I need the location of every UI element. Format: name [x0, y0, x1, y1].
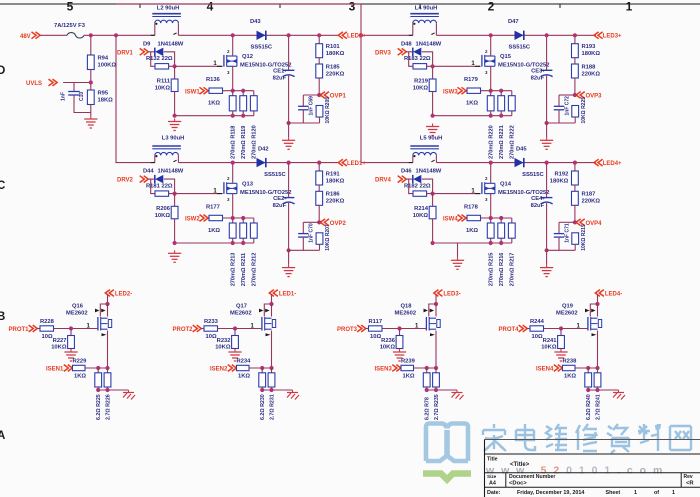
svg-text:ISW1: ISW1: [185, 89, 200, 95]
svg-text:1KΩ: 1KΩ: [74, 373, 86, 379]
ground CE: [282, 137, 295, 149]
svg-text:1N4148W: 1N4148W: [416, 169, 442, 175]
ground sense hatch: [613, 390, 625, 400]
ground CE: [540, 265, 553, 277]
svg-text:270mΩ R213: 270mΩ R213: [231, 253, 237, 287]
net ISEN1: [46, 365, 72, 373]
capacitor C70 1nF: [298, 222, 319, 250]
resistor R214 10KΩ: [413, 194, 436, 219]
ground pulldown: [554, 349, 567, 361]
wire source: [271, 331, 273, 369]
junction sense R: [105, 366, 109, 370]
resistor R215 270mΩ: [487, 218, 494, 286]
svg-text:1: 1: [626, 0, 633, 13]
resistor R226 2.7Ω: [104, 368, 111, 420]
net LED3+: [594, 32, 622, 40]
ground pulldown: [393, 349, 406, 361]
junction drain: [489, 33, 493, 37]
junction bottom L: [586, 388, 590, 392]
svg-text:270mΩ R220: 270mΩ R220: [489, 125, 495, 159]
wire sense bottom: [175, 242, 254, 244]
svg-text:1KΩ: 1KΩ: [208, 228, 220, 234]
watermark chinese characters 家电维修资料网: [483, 424, 691, 453]
svg-text:270mΩ R118: 270mΩ R118: [231, 126, 237, 159]
svg-text:10KΩ R207: 10KΩ R207: [325, 224, 331, 251]
net LED4+: [594, 159, 622, 167]
resistor R230 6.2Ω: [259, 368, 266, 420]
svg-text:Q16: Q16: [72, 304, 84, 310]
resistor R239 1KΩ: [401, 358, 416, 379]
resistor R193 180KΩ: [572, 35, 601, 57]
capacitor CE1 82uF: [273, 35, 295, 123]
capacitor C69 1nF: [298, 95, 319, 123]
wire gate: [218, 324, 262, 330]
svg-text:D48: D48: [401, 41, 412, 47]
resistor R191 180KΩ: [316, 163, 345, 185]
junction bottom R: [595, 388, 599, 392]
wire sense top: [481, 90, 512, 92]
resistor R229 1KΩ: [72, 358, 87, 379]
resistor R132 22Ω: [146, 56, 173, 69]
wire main rail: [178, 34, 338, 36]
net PROT3: [337, 325, 366, 333]
junction bottom R: [269, 388, 273, 392]
resistor R94 100K: [87, 55, 116, 70]
svg-text:2.7Ω R235: 2.7Ω R235: [434, 394, 440, 420]
junction bottom1: [231, 114, 235, 118]
svg-text:<R: <R: [686, 480, 694, 486]
svg-text:L4 90uH: L4 90uH: [415, 5, 438, 11]
svg-text:10Ω: 10Ω: [206, 334, 217, 340]
wire sense top: [223, 217, 254, 219]
svg-text:R227: R227: [53, 338, 67, 344]
wire DRV node: [148, 179, 155, 194]
junction OVP: [573, 220, 577, 224]
svg-text:6.2Ω R230: 6.2Ω R230: [260, 394, 266, 420]
svg-text:R193: R193: [582, 44, 597, 50]
svg-text:R117: R117: [369, 319, 383, 325]
resistor R95 18K: [87, 90, 113, 105]
wire fuse to L2: [84, 34, 155, 36]
wire DRV node: [148, 52, 155, 67]
svg-text:D46: D46: [401, 169, 412, 175]
resistor R192 180KΩ: [550, 163, 579, 185]
title block frame: [485, 440, 700, 497]
border top line: [0, 4, 700, 8]
wire drain: [232, 163, 234, 184]
net OVP1: [319, 78, 346, 100]
resistor R206 10KΩ: [155, 194, 178, 219]
net ISW3: [443, 87, 466, 95]
resistor R185 220KΩ: [316, 58, 345, 78]
resistor R119 270mΩ: [240, 91, 247, 159]
svg-text:1nF: 1nF: [61, 92, 67, 101]
junction source/sense: [231, 216, 235, 220]
svg-text:OVP1: OVP1: [330, 94, 347, 100]
wire drain: [435, 295, 437, 305]
svg-text:1nF C69: 1nF C69: [309, 96, 315, 116]
wire UVLS: [63, 82, 91, 84]
svg-text:LED3+: LED3+: [603, 34, 622, 40]
junction OVP: [317, 93, 321, 97]
svg-text:R214: R214: [414, 206, 429, 212]
svg-text:10KΩ: 10KΩ: [541, 345, 557, 351]
resistor R205 10KΩ: [316, 97, 331, 124]
svg-text:1nF C71: 1nF C71: [564, 223, 570, 243]
svg-text:10KΩ R225: 10KΩ R225: [581, 97, 587, 124]
net ISEN4: [536, 365, 562, 373]
wire pulldown ground: [560, 349, 562, 351]
wire main rail: [436, 34, 596, 36]
diode D42 SS515C: [257, 146, 287, 178]
wire gate: [544, 324, 588, 330]
svg-text:270mΩ R215: 270mΩ R215: [489, 253, 495, 287]
junction gate/R pulldown: [233, 326, 237, 330]
wire L4 right pin: [431, 23, 436, 35]
svg-text:R236: R236: [381, 338, 396, 344]
junction CE bottom: [545, 248, 549, 252]
net LED1-: [269, 290, 296, 298]
junction drain loop: [105, 302, 109, 306]
svg-text:18KΩ: 18KΩ: [98, 98, 114, 104]
junction gate node: [173, 192, 177, 196]
junction divider top: [317, 161, 321, 165]
junction source/sense: [489, 89, 493, 93]
wire C10 top: [73, 83, 75, 92]
svg-text:1: 1: [672, 490, 675, 496]
svg-text:L2 90uH: L2 90uH: [157, 5, 180, 11]
net ISW4: [443, 215, 466, 223]
net PROT4: [499, 325, 528, 333]
wire source: [232, 66, 234, 90]
svg-text:10KΩ: 10KΩ: [155, 86, 171, 92]
wire pulldown ground: [234, 349, 236, 351]
fuse F3 7A/125V: [54, 23, 86, 38]
svg-text:82uF: 82uF: [273, 76, 287, 82]
svg-text:R188: R188: [582, 64, 597, 70]
resistor R207 10KΩ: [316, 224, 331, 251]
wire OVP filter bottom: [289, 122, 320, 124]
svg-text:ME2602: ME2602: [66, 311, 88, 317]
svg-text:R233: R233: [204, 319, 219, 325]
wire sense bottom: [588, 389, 618, 391]
wire sense bottom: [427, 389, 457, 391]
svg-text:R238: R238: [563, 358, 578, 364]
transistor Q15 ME15N10-G/TO252: [471, 49, 549, 75]
svg-text:A: A: [0, 430, 5, 442]
wire R95 to ground: [90, 105, 92, 117]
wire sense bottom: [433, 115, 512, 117]
svg-text:1KΩ: 1KΩ: [466, 101, 478, 107]
net OVP2: [319, 205, 346, 227]
diode D45 SS515C: [515, 146, 545, 178]
resistor R216 270mΩ: [498, 218, 505, 286]
junction bottom/10K: [173, 241, 177, 245]
svg-text:270mΩ R222: 270mΩ R222: [510, 125, 516, 159]
svg-text:2.7Ω R226: 2.7Ω R226: [105, 394, 111, 420]
net OVP3: [575, 78, 602, 100]
junction sense R: [595, 366, 599, 370]
resistor R238 1KΩ: [562, 358, 577, 379]
resistor R215 10KΩ: [572, 224, 587, 251]
junction drain: [231, 33, 235, 37]
resistor R117 10Ω: [366, 319, 382, 340]
net DRV2: [117, 176, 148, 184]
svg-text:1KΩ: 1KΩ: [466, 228, 478, 234]
svg-text:PROT1: PROT1: [9, 327, 30, 333]
svg-text:LED2-: LED2-: [115, 292, 132, 298]
junction sense2: [499, 216, 503, 220]
wire R94-R95: [90, 70, 92, 91]
diode D44 1N4148W: [143, 169, 184, 184]
capacitor CE2 82uF: [273, 163, 295, 251]
svg-text:R192: R192: [554, 171, 568, 177]
svg-text:82uF: 82uF: [273, 203, 287, 209]
wire R206 bottom: [174, 219, 176, 243]
junction OVP: [573, 93, 577, 97]
svg-text:270mΩ R217: 270mΩ R217: [510, 253, 516, 287]
svg-text:R177: R177: [206, 204, 220, 210]
svg-text:270mΩ R212: 270mΩ R212: [252, 253, 258, 287]
ground pulldown: [64, 349, 77, 361]
wire CE ground: [546, 123, 548, 137]
svg-text:Q19: Q19: [562, 304, 574, 310]
wire C10 bottom: [74, 95, 91, 113]
wire diode anode: [164, 52, 175, 67]
junction CE bottom: [287, 248, 291, 252]
wire 48V top rail: [116, 3, 361, 5]
wire 48V to fuse: [41, 34, 68, 36]
wire OVP filter bottom: [547, 122, 576, 124]
inductor L2 90uH: [152, 5, 181, 25]
svg-text:R219: R219: [414, 79, 429, 85]
junction bottom/10K: [431, 241, 435, 245]
svg-text:R111: R111: [157, 79, 171, 85]
wire ground stub: [457, 243, 459, 257]
diode D47 SS515C: [508, 19, 531, 51]
svg-text:R94: R94: [98, 56, 109, 62]
svg-text:SS515C: SS515C: [509, 45, 531, 51]
svg-text:4: 4: [207, 0, 214, 13]
svg-text:10KΩ: 10KΩ: [155, 213, 171, 219]
wire sense: [85, 367, 108, 369]
svg-text:DRV1: DRV1: [117, 50, 134, 56]
junction rail/L4: [359, 33, 363, 37]
transistor Q12 ME15N10-G/TO252: [213, 49, 291, 75]
junction bottom/10K: [173, 114, 177, 118]
svg-text:Title: Title: [487, 456, 498, 462]
net LED3-: [434, 290, 461, 298]
resistor R225 6.2Ω: [95, 368, 102, 420]
svg-text:10KΩ R205: 10KΩ R205: [325, 97, 331, 124]
svg-text:270mΩ R216: 270mΩ R216: [499, 253, 505, 287]
resistor R236 10KΩ: [380, 329, 403, 351]
svg-text:ISW4: ISW4: [443, 217, 458, 223]
svg-text:A4: A4: [489, 480, 496, 486]
junction bottom2: [241, 114, 245, 118]
svg-text:Q14: Q14: [500, 181, 512, 187]
wire right rail: [361, 4, 413, 163]
junction bottom R: [434, 388, 438, 392]
svg-text:OVP2: OVP2: [330, 221, 347, 227]
svg-text:C10: C10: [79, 92, 85, 101]
resistor R177 1KΩ: [206, 204, 223, 234]
wire pulldown ground: [70, 349, 72, 351]
svg-text:ISW2: ISW2: [185, 217, 200, 223]
ground CE: [282, 265, 295, 277]
svg-text:ISW3: ISW3: [443, 89, 458, 95]
svg-text:R181 22Ω: R181 22Ω: [146, 184, 173, 190]
wire sense: [414, 367, 437, 369]
svg-text:ISEN2: ISEN2: [210, 367, 228, 373]
wire drain: [490, 35, 492, 56]
wire gate: [382, 324, 426, 330]
svg-text:10KΩ: 10KΩ: [215, 345, 231, 351]
resistor R187 220KΩ: [572, 185, 601, 205]
net DRV4: [375, 176, 406, 184]
capacitor CE3 82uF: [531, 35, 553, 123]
svg-text:D43: D43: [250, 19, 261, 25]
net ISEN3: [375, 365, 401, 373]
junction sense L: [260, 366, 264, 370]
junction divider top: [573, 161, 577, 165]
junction bottom1: [231, 241, 235, 245]
watermark url www.520101.com: [485, 465, 669, 477]
svg-text:LED3-: LED3-: [443, 292, 460, 298]
wire R214 bottom: [432, 219, 434, 243]
net LED2-: [105, 290, 132, 298]
net LED2+: [338, 32, 366, 40]
resistor R228 10Ω: [37, 319, 54, 340]
junction bottom/10K: [431, 114, 435, 118]
svg-text:R229: R229: [73, 358, 88, 364]
diode D43 SS515C: [250, 19, 273, 51]
junction bottom1: [489, 241, 493, 245]
junction OVP: [317, 220, 321, 224]
wire diode anode: [422, 52, 433, 67]
junction gate node: [431, 64, 435, 68]
svg-text:10KΩ R215: 10KΩ R215: [581, 224, 587, 251]
svg-text:10KΩ: 10KΩ: [413, 86, 429, 92]
resistor R183 22Ω: [404, 56, 431, 69]
svg-text:R228: R228: [40, 319, 55, 325]
wire rail to L4: [361, 34, 413, 36]
watermark book logo: [423, 424, 471, 480]
ground sense hatch: [452, 390, 464, 400]
wire sense bottom: [433, 242, 512, 244]
svg-text:ISEN4: ISEN4: [536, 367, 554, 373]
junction divider top: [317, 33, 321, 37]
svg-text:270mΩ R119: 270mΩ R119: [241, 126, 247, 159]
junction bottom L: [96, 388, 100, 392]
svg-text:Document Number: Document Number: [509, 474, 555, 480]
transistor Q17 ME2602: [230, 304, 276, 337]
resistor R217 270mΩ: [508, 218, 515, 286]
resistor R186 220KΩ: [316, 185, 345, 205]
svg-text:1KΩ: 1KΩ: [403, 373, 415, 379]
resistor R101 180KΩ: [316, 35, 345, 57]
svg-text:R187: R187: [582, 192, 596, 198]
resistor R220 270mΩ: [487, 91, 494, 159]
ground sense: [426, 124, 439, 136]
svg-text:DRV3: DRV3: [375, 50, 392, 56]
net PROT2: [173, 325, 202, 333]
transistor Q19 ME2602: [556, 304, 602, 337]
resistor R232 10KΩ: [215, 329, 238, 351]
junction CE top: [545, 161, 549, 165]
svg-text:82uF: 82uF: [531, 203, 545, 209]
resistor R213 270mΩ: [229, 218, 236, 286]
border column numbers: [67, 0, 633, 13]
svg-text:D47: D47: [508, 19, 519, 25]
wire source: [107, 331, 109, 369]
wire L3 left pin: [151, 156, 155, 163]
wire source: [490, 194, 492, 218]
resistor R244 10Ω: [527, 319, 544, 340]
junction sense2: [241, 89, 245, 93]
svg-text:ME2602: ME2602: [230, 311, 252, 317]
wire CE ground: [288, 250, 290, 264]
junction sense2: [499, 89, 503, 93]
net 48V: [20, 32, 40, 40]
svg-text:R178: R178: [464, 204, 479, 210]
wire pulldown ground: [399, 349, 401, 351]
capacitor C10 1nF: [61, 92, 86, 102]
svg-text:D: D: [0, 65, 5, 77]
wire L2 left pin: [151, 23, 155, 35]
svg-text:1KΩ: 1KΩ: [208, 101, 220, 107]
svg-text:R206: R206: [156, 206, 171, 212]
svg-text:Q17: Q17: [236, 304, 247, 310]
wire sense bottom: [98, 389, 128, 391]
wire DRV node: [406, 179, 413, 194]
resistor R188 220KΩ: [572, 58, 601, 78]
svg-text:D44: D44: [143, 169, 154, 175]
svg-text:270mΩ R221: 270mΩ R221: [499, 125, 505, 159]
svg-text:R95: R95: [98, 91, 109, 97]
ground sense hatch: [287, 390, 299, 400]
net ISW2: [185, 215, 208, 223]
wire source: [490, 66, 492, 90]
wire OVP filter bottom: [289, 249, 320, 251]
svg-text:LED2+: LED2+: [347, 34, 366, 40]
wire drain: [271, 295, 273, 305]
svg-text:R191: R191: [326, 171, 341, 177]
svg-text:220KΩ: 220KΩ: [582, 199, 601, 205]
junction gate/R pulldown: [559, 326, 563, 330]
svg-text:ME2602: ME2602: [395, 311, 417, 317]
wire CE ground: [546, 250, 548, 264]
svg-text:180KΩ: 180KΩ: [582, 51, 601, 57]
wire L2 right pin: [173, 23, 178, 35]
svg-text:48V: 48V: [20, 34, 31, 40]
svg-text:7A/125V F3: 7A/125V F3: [54, 23, 86, 29]
ground CE: [540, 137, 553, 149]
svg-text:Q15: Q15: [500, 54, 512, 60]
svg-text:R185: R185: [326, 64, 341, 70]
svg-text:D42: D42: [258, 146, 269, 152]
junction CE top: [287, 161, 291, 165]
resistor R235 2.7Ω: [433, 368, 440, 420]
junction sense R: [434, 366, 438, 370]
junction bottom L: [425, 388, 429, 392]
svg-text:DRV4: DRV4: [375, 178, 392, 184]
svg-text:R241: R241: [543, 338, 558, 344]
wire R94 branch: [90, 35, 92, 55]
wire drain: [490, 163, 492, 184]
wire OVP filter bottom: [547, 249, 576, 251]
svg-text:2.7Ω R241: 2.7Ω R241: [595, 394, 601, 420]
